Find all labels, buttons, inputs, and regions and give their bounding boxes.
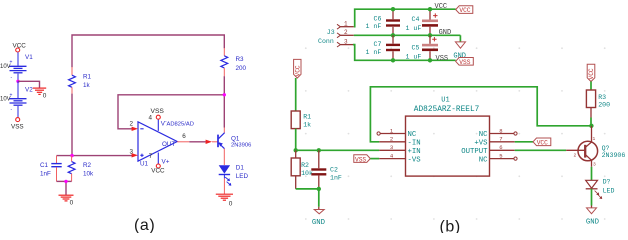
op-amp U1 AD825ARZ-REEL7 [377, 97, 517, 177]
ground GND (top right) [453, 42, 466, 61]
svg-text:Conn: Conn [318, 38, 334, 45]
svg-text:3: 3 [130, 148, 134, 155]
capacitor C7 1nF [366, 35, 401, 60]
svg-text:2: 2 [130, 121, 134, 128]
wire VCC label to R3 [590, 82, 592, 91]
resistor R2 10k [68, 156, 94, 182]
svg-text:3: 3 [593, 162, 596, 168]
svg-text:0: 0 [43, 93, 47, 100]
svg-text:+VS: +VS [474, 140, 488, 148]
global label VCC (rotated, left column) [294, 59, 302, 78]
wire LED to ground [591, 189, 593, 206]
pin 8 NC [490, 133, 514, 135]
wire op-amp output to Q1 base [177, 133, 217, 144]
svg-text:8: 8 [499, 127, 502, 134]
node R1-R2 junction [294, 148, 298, 152]
global label VCC (top right) [456, 6, 473, 14]
wire R1 to node, node to +IN [296, 129, 380, 151]
wire R2-C2 bottom to ground [296, 189, 319, 210]
svg-text:1 nF: 1 nF [366, 23, 382, 30]
svg-text:V+: V+ [162, 158, 170, 165]
wire VSS label to pin 4 [370, 158, 379, 160]
capacitor C4 1uF polarized [406, 9, 439, 35]
ground GND (bottom right) [586, 208, 600, 227]
wire midpoint to ground [18, 81, 40, 87]
wire GND rail [354, 34, 461, 36]
svg-text:LED: LED [603, 187, 615, 194]
svg-text:1k: 1k [303, 122, 311, 129]
ground 0 (bottom right) [216, 194, 233, 207]
svg-text:Q?: Q? [602, 145, 610, 152]
svg-text:VCC: VCC [151, 168, 165, 175]
global label VSS (right) [456, 58, 474, 66]
svg-text:GND: GND [439, 29, 452, 37]
svg-text:U1: U1 [140, 160, 149, 167]
svg-text:10k: 10k [83, 170, 94, 177]
svg-text:NC: NC [408, 131, 417, 139]
wire VCC label to R1 [295, 78, 297, 111]
svg-text:VSS: VSS [11, 124, 24, 131]
wire node A to op-amp pin 3 [57, 155, 133, 157]
grid dots [305, 47, 606, 220]
resistor R1 1k (b) [291, 111, 311, 129]
svg-text:R2: R2 [83, 162, 92, 169]
svg-text:200: 200 [236, 65, 247, 72]
svg-text:1nF: 1nF [330, 175, 342, 182]
svg-text:VSS: VSS [151, 108, 165, 115]
svg-text:VCC: VCC [295, 65, 302, 76]
svg-text:R1: R1 [83, 74, 92, 81]
svg-text:C6: C6 [374, 15, 382, 22]
resistor R3 200 (b) [586, 90, 610, 126]
svg-text:OUTPUT: OUTPUT [461, 148, 488, 156]
node C1-R2 bottom junction [64, 180, 67, 183]
op-amp U1 AD825/AD [130, 108, 194, 175]
svg-text:1k: 1k [83, 82, 91, 89]
svg-text:C2: C2 [330, 167, 338, 174]
ground GND (bottom left) [312, 210, 326, 227]
svg-text:-IN: -IN [408, 140, 421, 148]
svg-text:U1: U1 [441, 97, 449, 105]
svg-text:200: 200 [598, 101, 610, 108]
svg-text:VSS: VSS [436, 55, 449, 63]
global label VSS (at pin 4) [354, 155, 371, 164]
svg-text:2: 2 [390, 136, 393, 143]
node C6-C7 GND rail [391, 33, 395, 37]
svg-text:C5: C5 [412, 44, 420, 51]
svg-text:+: + [10, 93, 13, 99]
pin 5 NC [490, 158, 514, 160]
svg-text:(b): (b) [440, 218, 461, 233]
svg-text:7: 7 [149, 153, 153, 160]
node C7 bottom [391, 58, 395, 62]
svg-text:4: 4 [149, 114, 153, 121]
svg-text:C4: C4 [412, 16, 420, 23]
resistor R2 10k (b) [291, 150, 313, 189]
pin 1 NC [380, 133, 405, 135]
svg-text:R2: R2 [301, 162, 309, 169]
svg-text:VSS: VSS [459, 59, 470, 66]
transistor Q1 2N3906 [218, 128, 251, 166]
svg-text:V2: V2 [25, 87, 33, 94]
svg-text:LED: LED [236, 173, 249, 180]
pin 7 +VS [490, 141, 515, 143]
resistor R1 1k [69, 67, 92, 94]
node R3-feedback-Q7 junction [589, 124, 593, 128]
svg-text:1 uF: 1 uF [406, 25, 422, 32]
wire GND rail to ground symbol [459, 35, 461, 41]
pin 3 +IN [379, 149, 405, 151]
pin 6 OUTPUT [490, 149, 515, 151]
svg-text:Q1: Q1 [231, 135, 240, 142]
svg-text:+IN: +IN [408, 148, 421, 156]
capacitor C5 1uF polarized [406, 35, 439, 60]
svg-text:R1: R1 [303, 114, 311, 121]
LED D? (b) [586, 178, 615, 199]
node R2-C2 bottom junction [317, 187, 321, 191]
svg-text:-VS: -VS [408, 156, 422, 164]
svg-text:AD825/AD: AD825/AD [167, 121, 194, 127]
svg-text:AD825ARZ-REEL7: AD825ARZ-REEL7 [414, 106, 480, 114]
wire top rail (R1 top to R3 top) [72, 35, 224, 67]
svg-text:D?: D? [603, 178, 611, 185]
svg-text:GND: GND [586, 219, 600, 227]
wire R3 bottom to junction to Q1 [223, 76, 225, 127]
svg-text:1 nF: 1 nF [366, 49, 382, 56]
resistor R3 200 [221, 48, 247, 76]
svg-text:2: 2 [574, 152, 577, 158]
svg-text:2: 2 [344, 29, 348, 36]
node C5 bottom [428, 58, 432, 62]
svg-text:C7: C7 [374, 41, 382, 48]
capacitor C6 1nF [366, 9, 401, 35]
node C2 top junction [317, 148, 321, 152]
svg-text:J3: J3 [327, 29, 335, 36]
wire J3 pin1 to VCC rail [354, 9, 456, 27]
svg-text:3: 3 [390, 144, 393, 151]
svg-text:NC: NC [479, 156, 488, 164]
ground 0 (bottom left) [59, 195, 74, 206]
svg-text:+: + [10, 60, 13, 66]
node C4 top [428, 7, 432, 11]
svg-text:1nF: 1nF [40, 170, 51, 177]
svg-text:VCC: VCC [435, 3, 448, 11]
wire feedback loop (-IN to R3 bottom junction) [370, 87, 591, 142]
ground 0 (near V2) [33, 88, 47, 99]
wire Q7 collector to LED [591, 167, 593, 181]
node A junction [70, 154, 73, 157]
node battery midpoint junction [16, 80, 19, 83]
node C4-C5 GND rail [428, 33, 432, 37]
battery V1 10V [0, 52, 33, 81]
svg-text:C1: C1 [40, 162, 49, 169]
svg-text:VCC: VCC [588, 68, 595, 79]
wire C1 R2 bottom to ground [57, 181, 72, 195]
power terminal VCC [13, 43, 27, 53]
svg-text:7: 7 [499, 136, 502, 143]
connector J3 Conn [318, 20, 354, 47]
capacitor C1 1nF [40, 156, 62, 182]
global label VCC (at pin 7) [533, 138, 551, 146]
wire R1 bottom to node A [71, 94, 73, 156]
wire feedback (R3 junction to op-amp pin 2) [118, 95, 224, 129]
svg-text:6: 6 [182, 133, 186, 140]
svg-text:5: 5 [499, 153, 502, 160]
wire J3 pin3 to VSS rail [353, 45, 456, 61]
transistor Q7 2N3906 [566, 126, 625, 168]
pin 2 -IN [379, 141, 405, 143]
svg-text:OUT: OUT [162, 141, 175, 148]
battery V2 10V [0, 81, 33, 117]
svg-text:2N3906: 2N3906 [602, 152, 626, 159]
svg-text:1 uF: 1 uF [406, 53, 422, 60]
svg-text:10k: 10k [301, 170, 313, 177]
wire pin 6 OUTPUT to Q7 base [515, 149, 567, 151]
svg-text:6: 6 [499, 144, 502, 151]
node R3-Q1-feedback junction [223, 93, 226, 96]
svg-text:D1: D1 [236, 164, 245, 171]
LED D1 [219, 164, 249, 194]
wire pin 7 to VCC label [515, 141, 533, 143]
global label VCC (rotated, above R3) [587, 64, 595, 81]
svg-text:VCC: VCC [537, 139, 548, 146]
node C6 top [391, 7, 395, 11]
svg-text:NC: NC [479, 131, 488, 139]
svg-text:2N3906: 2N3906 [231, 142, 251, 148]
svg-text:1: 1 [344, 20, 348, 27]
svg-text:0: 0 [70, 200, 74, 207]
svg-text:0: 0 [229, 200, 233, 207]
pin 4 -VS [379, 158, 405, 160]
svg-text:1: 1 [593, 136, 596, 142]
svg-text:(a): (a) [134, 217, 155, 233]
svg-text:V1: V1 [25, 54, 33, 61]
svg-text:R3: R3 [236, 56, 245, 63]
svg-text:VCC: VCC [459, 7, 470, 14]
power terminal VSS [11, 118, 24, 131]
capacitor C2 1nF (b) [311, 150, 342, 189]
svg-text:VSS: VSS [355, 156, 366, 163]
svg-text:3: 3 [344, 38, 348, 45]
svg-text:GND: GND [312, 219, 326, 227]
svg-text:R3: R3 [598, 94, 606, 101]
